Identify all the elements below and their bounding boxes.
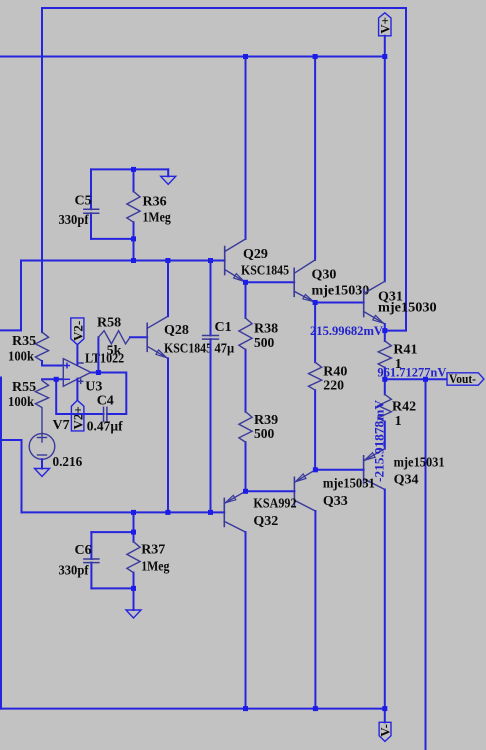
flag V+ bbox=[377, 13, 392, 36]
svg-text:47µ: 47µ bbox=[215, 342, 235, 357]
wire V- flag stem bbox=[384, 709, 386, 723]
wire Q32 base row from left bbox=[22, 511, 225, 513]
resistor R42 bbox=[384, 379, 386, 394]
wire Q34 collector down bbox=[384, 490, 386, 709]
wire Q33 collector down bbox=[314, 511, 316, 709]
svg-text:100k: 100k bbox=[8, 395, 34, 410]
transistor Q34 mje15031 bbox=[363, 456, 365, 484]
transistor Q30 mje15030 bbox=[293, 268, 295, 296]
svg-text:C4: C4 bbox=[97, 394, 114, 409]
wire R37C6 column top bbox=[133, 512, 135, 532]
svg-text:Q32: Q32 bbox=[253, 514, 278, 529]
svg-text:Q29: Q29 bbox=[243, 247, 268, 262]
svg-text:1: 1 bbox=[395, 414, 402, 429]
svg-text:-215.91878mV: -215.91878mV bbox=[372, 399, 387, 482]
wire C1 column top bbox=[210, 261, 212, 336]
wire R36 leads bbox=[133, 169, 135, 191]
svg-text:215.99682mV: 215.99682mV bbox=[310, 323, 384, 338]
resistor R55 bbox=[35, 379, 48, 433]
resistor R37 bbox=[127, 542, 140, 573]
svg-text:V2+: V2+ bbox=[71, 406, 86, 429]
svg-text:R38: R38 bbox=[254, 322, 278, 337]
svg-text:mje15031: mje15031 bbox=[394, 456, 445, 471]
wire top base rail y=260.5 bbox=[21, 260, 225, 262]
svg-text:5k: 5k bbox=[107, 344, 122, 359]
wire C6R37 top row bbox=[91, 531, 133, 533]
flag Vout- bbox=[447, 371, 484, 386]
capacitor C4 bbox=[104, 407, 107, 421]
wire R35 feedback drop x=42 bbox=[41, 8, 43, 332]
wire top feedback loop (42,8)-(406,8)-(406,330.6)-(384.8,330.6) bbox=[42, 8, 406, 331]
wire V+ flag stem bbox=[384, 36, 386, 57]
svg-text:V7: V7 bbox=[53, 418, 70, 433]
svg-text:330pf: 330pf bbox=[59, 564, 89, 579]
capacitor C5 bbox=[84, 209, 99, 213]
svg-text:Q28: Q28 bbox=[164, 323, 189, 338]
wire C1 column bottom bbox=[210, 339, 212, 512]
wire R58 left riser bbox=[97, 337, 99, 372]
wire inverting input row bbox=[42, 378, 63, 380]
wire Q30 collector column bbox=[314, 57, 316, 260]
wire R40 column bbox=[314, 303, 316, 363]
svg-text:500: 500 bbox=[254, 336, 274, 351]
wire R37 leads bbox=[133, 532, 135, 542]
svg-text:C5: C5 bbox=[75, 194, 92, 209]
svg-text:R55: R55 bbox=[12, 380, 36, 395]
wire Q33 base row bbox=[315, 469, 363, 471]
wire op-amp output / feedback loop bbox=[91, 373, 127, 415]
svg-text:mje15031: mje15031 bbox=[323, 477, 375, 492]
wire C6R37 bottom row bbox=[91, 587, 133, 589]
svg-text:Q33: Q33 bbox=[323, 494, 348, 509]
svg-text:R41: R41 bbox=[393, 343, 417, 358]
wire output drop x=425.5 bbox=[425, 379, 427, 750]
svg-text:0.216: 0.216 bbox=[53, 455, 83, 470]
svg-text:R36: R36 bbox=[143, 195, 167, 210]
svg-text:220: 220 bbox=[323, 379, 344, 394]
svg-text:KSA992: KSA992 bbox=[253, 497, 296, 512]
node dots mid/bottom bbox=[131, 280, 428, 711]
wire left input branch vertical x=21 bbox=[20, 261, 22, 331]
flag V2+ bbox=[71, 400, 86, 431]
wire V+ rail y=56.5 bbox=[0, 56, 385, 58]
ground bottom (R37C6) bbox=[126, 610, 141, 618]
op-amp U3 LT1022 bbox=[63, 359, 91, 387]
svg-text:C1: C1 bbox=[215, 320, 232, 335]
ground top (C5R36) bbox=[167, 169, 169, 176]
resistor R41 bbox=[384, 331, 386, 341]
wire C5R36 top bbox=[91, 168, 168, 170]
wire Q28 emitter down bbox=[167, 358, 169, 512]
wire left branch y=440 bbox=[1, 440, 22, 512]
svg-text:R39: R39 bbox=[254, 413, 278, 428]
svg-text:R42: R42 bbox=[392, 399, 416, 414]
svg-text:330pf: 330pf bbox=[59, 213, 89, 228]
transistor Q31 mje15030 bbox=[363, 289, 365, 317]
node dots op-amp area bbox=[54, 370, 101, 382]
wire Q29 emitter to Q30 base bbox=[246, 281, 295, 283]
svg-text:C6: C6 bbox=[75, 543, 92, 558]
wire Q32 emitter to Q33 base bbox=[246, 490, 295, 492]
svg-text:1Meg: 1Meg bbox=[141, 559, 169, 574]
svg-text:1Meg: 1Meg bbox=[143, 211, 171, 226]
svg-text:V-: V- bbox=[377, 724, 392, 737]
resistor R38 bbox=[239, 318, 252, 350]
svg-text:mje15030: mje15030 bbox=[378, 301, 437, 316]
svg-text:mje15030: mje15030 bbox=[312, 284, 370, 299]
resistor R36 bbox=[127, 191, 140, 222]
svg-text:V+: V+ bbox=[377, 17, 392, 34]
wire R38 R39 column bbox=[245, 282, 247, 318]
svg-text:R58: R58 bbox=[97, 315, 121, 330]
node dots top area bbox=[131, 54, 387, 263]
voltage source V7 bbox=[29, 433, 55, 459]
transistor Q32 KSA992 bbox=[223, 498, 225, 526]
wire Q31 emitter stub bbox=[384, 324, 386, 331]
resistor R39 bbox=[239, 412, 252, 442]
wire left stub y=330.4 bbox=[0, 329, 21, 331]
svg-text:Q34: Q34 bbox=[394, 473, 419, 488]
flag V2- bbox=[70, 318, 85, 345]
svg-text:R37: R37 bbox=[141, 542, 165, 557]
resistor R40 bbox=[309, 362, 322, 390]
svg-text:V2-: V2- bbox=[70, 321, 85, 341]
wire Q30 emitter to Q31 base bbox=[315, 302, 364, 304]
svg-text:961.71277nV: 961.71277nV bbox=[377, 365, 447, 380]
resistor R58 bbox=[98, 331, 130, 344]
wire C5R36 bottom bbox=[91, 238, 134, 240]
wire C6 left leads bbox=[90, 532, 92, 559]
svg-text:0.47µf: 0.47µf bbox=[87, 420, 123, 435]
wire Q28 collector up bbox=[167, 261, 169, 317]
svg-text:R40: R40 bbox=[323, 365, 347, 380]
svg-text:KSC1845: KSC1845 bbox=[164, 342, 212, 357]
transistor Q28 KSC1845 bbox=[146, 323, 148, 351]
transistor Q33 mje15031 bbox=[293, 477, 295, 505]
transistor Q29 KSC1845 bbox=[224, 247, 226, 275]
capacitor C6 bbox=[84, 559, 99, 563]
flag V- bbox=[377, 722, 392, 741]
svg-text:Vout-: Vout- bbox=[449, 371, 476, 386]
ground V7 bbox=[41, 459, 43, 468]
resistor R35 bbox=[35, 332, 48, 361]
svg-text:Q30: Q30 bbox=[312, 268, 337, 283]
capacitor C1 bbox=[203, 336, 219, 340]
svg-text:100k: 100k bbox=[8, 350, 34, 365]
wire Vout row bbox=[385, 378, 447, 380]
wire Q32 collector down bbox=[245, 532, 247, 709]
wire Q31 collector column bbox=[384, 57, 386, 282]
svg-text:U3: U3 bbox=[85, 380, 102, 395]
svg-text:KSC1845: KSC1845 bbox=[241, 263, 289, 278]
op-amp power pin wires + flags V2- V2+ bbox=[76, 345, 78, 365]
wire R36C5 to base rail x=133.5 bbox=[133, 239, 135, 261]
svg-text:500: 500 bbox=[254, 427, 274, 442]
wire Q29 collector column bbox=[245, 57, 247, 240]
wire V- rail bbox=[0, 708, 385, 710]
svg-text:R35: R35 bbox=[12, 334, 36, 349]
wire left rail x=1.5 bbox=[0, 378, 2, 709]
wire C5 left leads bbox=[90, 169, 92, 209]
